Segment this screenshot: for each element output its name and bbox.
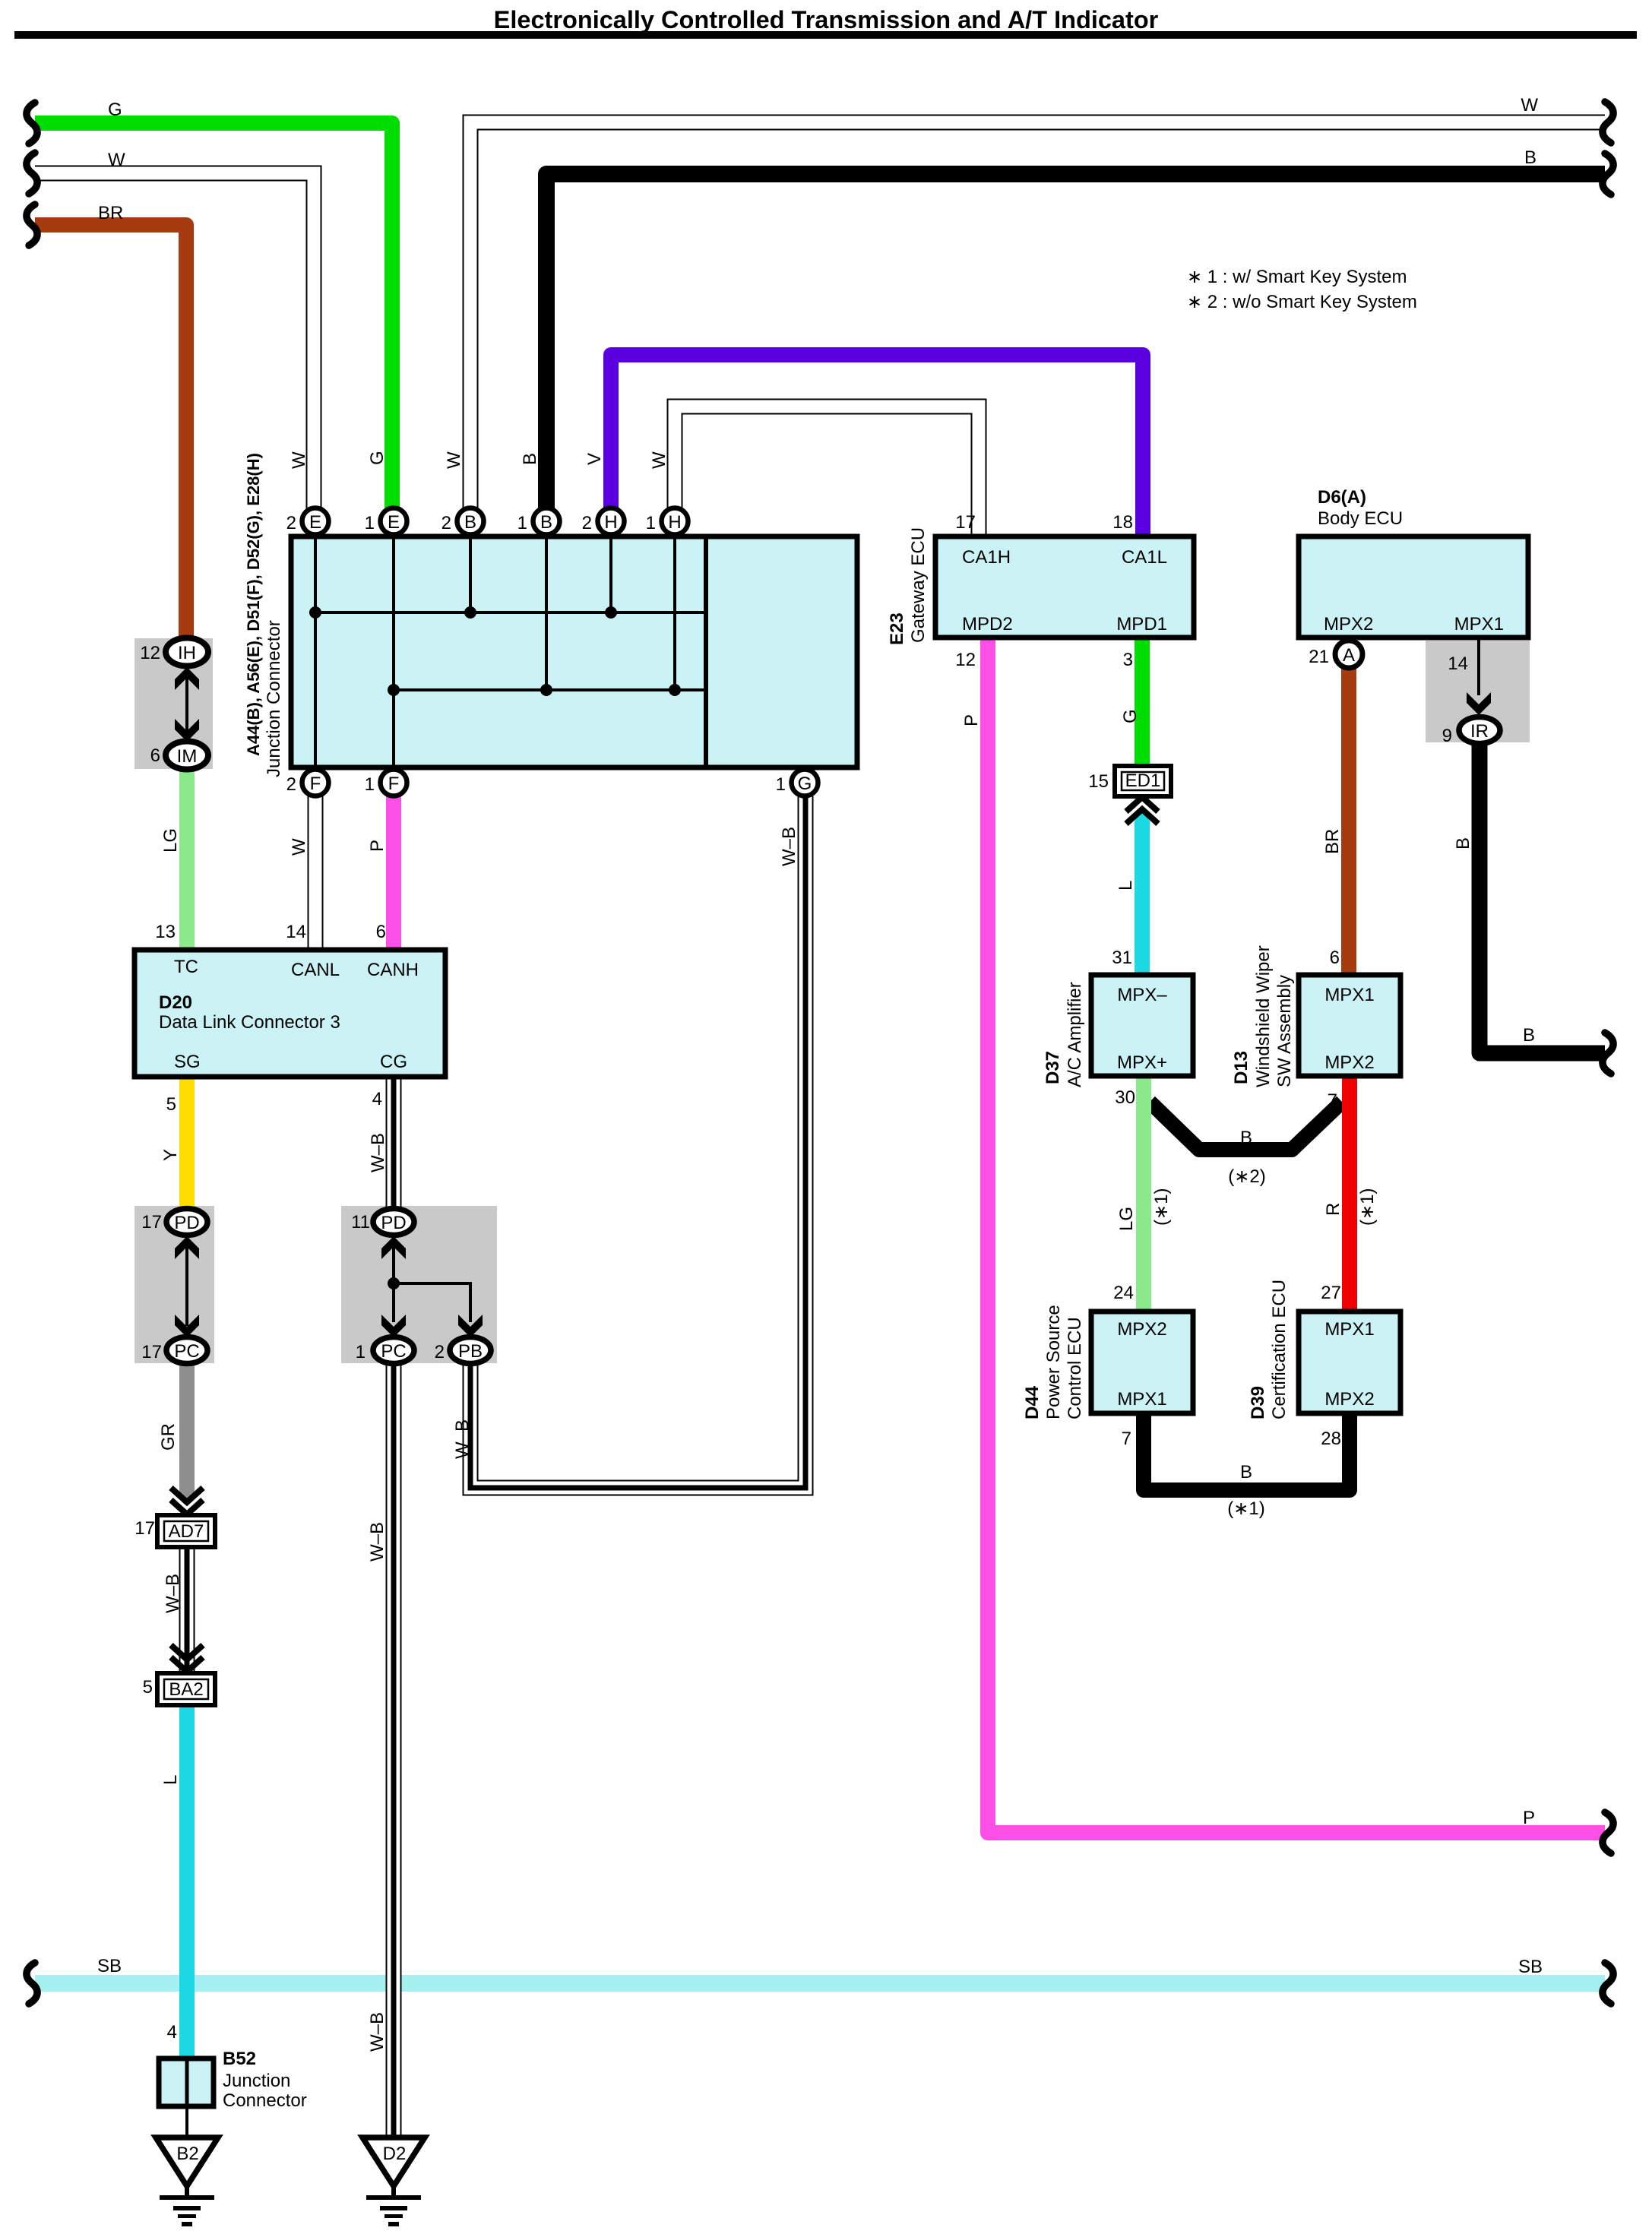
svg-text:MPX–: MPX– xyxy=(1117,985,1167,1005)
svg-text:17: 17 xyxy=(141,1342,162,1362)
svg-text:W: W xyxy=(444,451,464,469)
svg-text:PC: PC xyxy=(174,1341,199,1362)
svg-text:CG: CG xyxy=(380,1052,407,1072)
svg-text:28: 28 xyxy=(1321,1429,1341,1449)
svg-text:17: 17 xyxy=(955,512,976,533)
svg-text:L: L xyxy=(160,1775,181,1785)
svg-text:2: 2 xyxy=(435,1342,445,1362)
svg-text:D2: D2 xyxy=(383,2144,407,2164)
svg-text:MPX2: MPX2 xyxy=(1324,1052,1374,1073)
svg-text:PD: PD xyxy=(381,1213,406,1233)
svg-text:L: L xyxy=(1116,881,1136,891)
svg-text:Certification ECU: Certification ECU xyxy=(1269,1280,1290,1419)
svg-text:CANL: CANL xyxy=(291,960,340,980)
svg-text:SG: SG xyxy=(174,1052,201,1072)
svg-text:A/C Amplifier: A/C Amplifier xyxy=(1065,982,1085,1087)
svg-text:G: G xyxy=(798,774,812,794)
svg-text:MPX1: MPX1 xyxy=(1324,1319,1374,1340)
svg-text:H: H xyxy=(668,512,681,533)
svg-text:IR: IR xyxy=(1470,721,1489,742)
svg-text:6: 6 xyxy=(376,922,386,942)
svg-text:D37: D37 xyxy=(1043,1051,1063,1084)
svg-text:3: 3 xyxy=(1123,650,1133,670)
svg-text:24: 24 xyxy=(1113,1283,1134,1303)
svg-text:P: P xyxy=(367,840,388,852)
svg-text:E23: E23 xyxy=(887,612,907,645)
svg-text:BR: BR xyxy=(1322,829,1343,854)
svg-text:1: 1 xyxy=(356,1342,366,1362)
svg-text:2: 2 xyxy=(441,513,451,533)
svg-text:F: F xyxy=(388,774,400,794)
svg-text:MPX1: MPX1 xyxy=(1324,985,1374,1005)
svg-text:P: P xyxy=(1523,1808,1535,1828)
svg-text:13: 13 xyxy=(155,922,176,942)
svg-text:IH: IH xyxy=(178,643,196,663)
svg-text:1: 1 xyxy=(646,513,656,533)
svg-text:14: 14 xyxy=(1448,653,1468,674)
svg-text:MPX1: MPX1 xyxy=(1454,614,1504,634)
svg-text:B: B xyxy=(1523,1025,1535,1046)
svg-text:B: B xyxy=(1240,1128,1252,1148)
svg-text:B: B xyxy=(520,453,540,465)
svg-text:G: G xyxy=(1120,709,1141,723)
svg-text:2: 2 xyxy=(582,513,592,533)
svg-text:2: 2 xyxy=(286,513,296,533)
svg-text:W–B: W–B xyxy=(452,1419,473,1459)
svg-text:MPX+: MPX+ xyxy=(1117,1052,1167,1073)
svg-text:SB: SB xyxy=(97,1956,122,1976)
svg-text:D39: D39 xyxy=(1248,1386,1268,1419)
svg-text:31: 31 xyxy=(1112,948,1132,968)
svg-text:∗ 1 : w/ Smart Key System: ∗ 1 : w/ Smart Key System xyxy=(1187,267,1407,287)
svg-text:LG: LG xyxy=(160,828,181,853)
svg-text:W: W xyxy=(289,838,309,856)
svg-text:Y: Y xyxy=(160,1149,181,1161)
svg-text:1: 1 xyxy=(776,774,786,795)
svg-text:R: R xyxy=(1323,1203,1343,1216)
svg-text:B52: B52 xyxy=(223,2049,256,2069)
svg-text:1: 1 xyxy=(365,513,375,533)
svg-text:LG: LG xyxy=(1116,1207,1137,1231)
svg-text:TC: TC xyxy=(174,957,198,977)
svg-text:W: W xyxy=(108,150,125,170)
svg-text:Gateway ECU: Gateway ECU xyxy=(908,527,929,643)
svg-text:Data Link Connector 3: Data Link Connector 3 xyxy=(159,1012,340,1033)
svg-text:D44: D44 xyxy=(1022,1385,1043,1419)
svg-text:W–B: W–B xyxy=(163,1574,183,1613)
svg-text:W: W xyxy=(1521,95,1538,115)
svg-text:7: 7 xyxy=(1122,1429,1131,1449)
svg-text:Control ECU: Control ECU xyxy=(1065,1317,1085,1419)
svg-text:12: 12 xyxy=(955,650,976,670)
svg-text:ED1: ED1 xyxy=(1125,771,1161,791)
svg-text:Electronically Controlled Tran: Electronically Controlled Transmission a… xyxy=(494,6,1159,33)
svg-text:27: 27 xyxy=(1321,1283,1341,1303)
svg-text:D6(A): D6(A) xyxy=(1318,487,1366,508)
svg-text:H: H xyxy=(604,512,617,533)
svg-text:CANH: CANH xyxy=(367,960,419,980)
svg-text:15: 15 xyxy=(1088,771,1109,792)
svg-text:W–B: W–B xyxy=(367,1522,388,1562)
svg-text:5: 5 xyxy=(166,1094,176,1115)
svg-text:MPX2: MPX2 xyxy=(1324,614,1373,634)
svg-text:GR: GR xyxy=(158,1423,179,1451)
svg-text:MPD2: MPD2 xyxy=(962,614,1013,634)
svg-text:W: W xyxy=(289,451,309,469)
svg-text:SB: SB xyxy=(1518,1957,1543,1977)
svg-text:4: 4 xyxy=(372,1089,382,1109)
svg-text:Junction: Junction xyxy=(223,2071,290,2091)
svg-text:CA1L: CA1L xyxy=(1122,547,1167,568)
svg-text:Windshield Wiper: Windshield Wiper xyxy=(1253,945,1274,1087)
svg-text:Junction Connector: Junction Connector xyxy=(264,620,284,777)
svg-text:G: G xyxy=(367,451,388,465)
svg-text:W: W xyxy=(649,451,669,469)
svg-text:W–B: W–B xyxy=(367,2012,388,2052)
svg-text:V: V xyxy=(584,453,605,465)
svg-text:12: 12 xyxy=(140,643,160,663)
svg-text:PB: PB xyxy=(458,1341,483,1362)
svg-text:2: 2 xyxy=(286,774,296,795)
svg-text:(∗1): (∗1) xyxy=(1151,1188,1172,1226)
svg-text:A44(B), A56(E), D51(F), D52(G): A44(B), A56(E), D51(F), D52(G), E28(H) xyxy=(244,453,263,756)
svg-text:(∗2): (∗2) xyxy=(1228,1166,1265,1187)
svg-text:F: F xyxy=(310,774,321,794)
svg-text:D20: D20 xyxy=(159,992,192,1013)
svg-text:A: A xyxy=(1343,645,1355,666)
svg-text:17: 17 xyxy=(141,1212,162,1232)
svg-text:B: B xyxy=(1453,837,1473,850)
svg-text:30: 30 xyxy=(1115,1087,1135,1108)
svg-text:MPX1: MPX1 xyxy=(1117,1389,1166,1410)
svg-text:21: 21 xyxy=(1309,647,1329,667)
svg-text:MPX2: MPX2 xyxy=(1117,1319,1166,1340)
svg-text:PC: PC xyxy=(381,1341,406,1362)
svg-text:9: 9 xyxy=(1442,726,1452,746)
svg-text:BA2: BA2 xyxy=(169,1679,203,1700)
svg-text:G: G xyxy=(108,100,122,120)
svg-text:Connector: Connector xyxy=(223,2090,307,2111)
svg-text:6: 6 xyxy=(150,745,160,766)
svg-text:(∗1): (∗1) xyxy=(1227,1498,1264,1519)
svg-text:E: E xyxy=(388,512,400,533)
svg-text:Power Source: Power Source xyxy=(1043,1305,1064,1419)
svg-text:18: 18 xyxy=(1112,512,1133,533)
svg-text:MPD1: MPD1 xyxy=(1116,614,1167,634)
svg-text:6: 6 xyxy=(1330,948,1340,968)
svg-text:B: B xyxy=(1240,1462,1252,1482)
svg-text:B: B xyxy=(464,512,476,533)
svg-text:AD7: AD7 xyxy=(169,1521,204,1542)
svg-text:D13: D13 xyxy=(1231,1051,1252,1084)
svg-text:4: 4 xyxy=(167,2022,177,2043)
svg-text:5: 5 xyxy=(143,1677,153,1698)
svg-text:B: B xyxy=(1524,147,1536,168)
svg-text:PD: PD xyxy=(174,1213,199,1233)
svg-text:BR: BR xyxy=(98,203,123,223)
svg-text:17: 17 xyxy=(135,1518,155,1539)
svg-text:IM: IM xyxy=(177,746,198,767)
svg-text:B2: B2 xyxy=(176,2144,198,2164)
svg-text:MPX2: MPX2 xyxy=(1324,1389,1374,1410)
svg-text:CA1H: CA1H xyxy=(962,547,1011,568)
svg-text:7: 7 xyxy=(1328,1090,1337,1111)
svg-text:SW Assembly: SW Assembly xyxy=(1274,975,1295,1087)
svg-text:W–B: W–B xyxy=(368,1133,388,1172)
svg-text:Body ECU: Body ECU xyxy=(1318,508,1403,529)
svg-text:1: 1 xyxy=(517,513,527,533)
svg-text:P: P xyxy=(961,714,982,726)
svg-text:B: B xyxy=(540,512,552,533)
svg-text:∗ 2 : w/o Smart Key System: ∗ 2 : w/o Smart Key System xyxy=(1187,292,1417,312)
svg-text:E: E xyxy=(309,512,321,533)
svg-text:1: 1 xyxy=(365,774,375,795)
svg-text:11: 11 xyxy=(351,1212,370,1232)
svg-text:(∗1): (∗1) xyxy=(1357,1188,1378,1226)
svg-text:14: 14 xyxy=(286,922,306,942)
svg-text:W–B: W–B xyxy=(779,827,799,866)
